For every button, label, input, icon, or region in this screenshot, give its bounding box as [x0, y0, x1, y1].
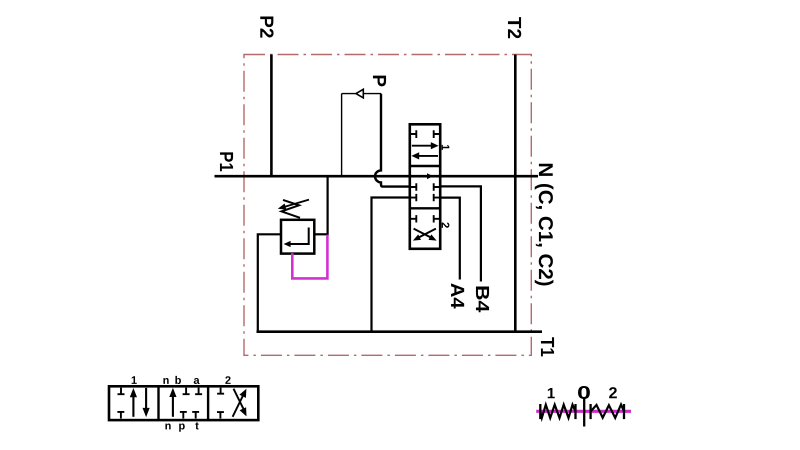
wire P1 main pressure line — [215, 175, 539, 178]
wire valve tank return vertical — [372, 198, 411, 332]
relief valve RV1 spring — [282, 200, 301, 218]
relief valve RV1 body — [281, 220, 314, 254]
label P2 — [260, 16, 273, 37]
spool S1 ports — [117, 388, 124, 419]
valve V1 body — [410, 124, 440, 249]
spool S1 down arrow — [145, 388, 147, 410]
spring centering axis (magenta) — [536, 410, 631, 413]
wire port A4 — [440, 198, 460, 280]
valve V1 pos1 right port — [434, 130, 439, 138]
wire tank rail bottom — [257, 330, 543, 333]
spring center lever — [583, 398, 585, 427]
label 1 (spring) — [548, 388, 555, 398]
spool S1 up arrow — [132, 394, 134, 417]
spool diagram divider 1 — [157, 386, 159, 420]
spring right zigzag — [591, 405, 624, 418]
valve V1 pos1 left port — [411, 130, 416, 138]
wire relief pilot right connection — [314, 233, 327, 235]
label T1 — [541, 337, 554, 356]
valve V1 pos1 right flow arrow — [412, 145, 432, 147]
label 2 (valve pos2) — [442, 223, 450, 228]
valve block boundary (dash-dot red frame) — [244, 55, 531, 356]
spool diagram block — [109, 386, 258, 420]
spool diagram divider 2 — [207, 386, 209, 420]
label P1 — [220, 152, 233, 171]
valve V1 divider 2 — [410, 207, 440, 209]
wire tank branch left vertical — [258, 234, 281, 331]
label N (C, C1, C2) — [535, 164, 554, 286]
spring left end bar — [539, 404, 541, 419]
label P — [373, 76, 386, 87]
spring left zigzag — [540, 405, 575, 418]
relief valve RV1 adjust arrow — [281, 200, 309, 208]
wire relief drain (magenta) — [292, 235, 327, 279]
valve V1 divider 1 — [410, 165, 440, 167]
valve V1 pos2 crossed arrows — [414, 229, 434, 239]
gauge port triangle — [356, 89, 363, 98]
wire relief sense vertical — [327, 176, 329, 235]
label T2 — [508, 17, 521, 38]
spring right inner bar — [589, 404, 591, 419]
valve V1 pos2 ports — [411, 215, 439, 222]
valve V1 pos0 ports — [411, 183, 439, 201]
wire pilot line with hop over P1 — [375, 94, 410, 187]
valve V1 pos1 left flow arrow — [418, 155, 438, 157]
spring left inner bar — [574, 404, 576, 419]
spool S2 ports — [180, 388, 202, 419]
label 2 (spool) — [225, 376, 230, 384]
spool S3 crossed arrows — [233, 396, 243, 417]
label 1 (spool) — [132, 376, 137, 384]
spool S3 ports — [217, 388, 224, 419]
labels n b a (spool top) — [163, 378, 168, 384]
label 1 (valve pos1) — [442, 145, 450, 150]
labels n p t (spool bottom) — [165, 424, 170, 430]
label 2 (spring) — [609, 387, 617, 398]
label B4 — [476, 287, 489, 313]
label 0 (spring) — [578, 386, 590, 399]
spool S2 up arrow — [172, 395, 174, 417]
relief valve RV1 internal flow arrow — [289, 228, 309, 245]
wire P2 port line — [270, 55, 273, 177]
label A4 — [451, 283, 464, 308]
wire port B4 — [440, 186, 481, 281]
valve V1 pos0 flow arrowhead on P1 — [427, 173, 433, 179]
spring right end bar — [623, 404, 625, 419]
wire pilot gauge branch vertical thin — [341, 94, 343, 177]
wire pilot gauge top horizontal — [342, 93, 381, 95]
wire T2 tank line — [514, 55, 517, 333]
